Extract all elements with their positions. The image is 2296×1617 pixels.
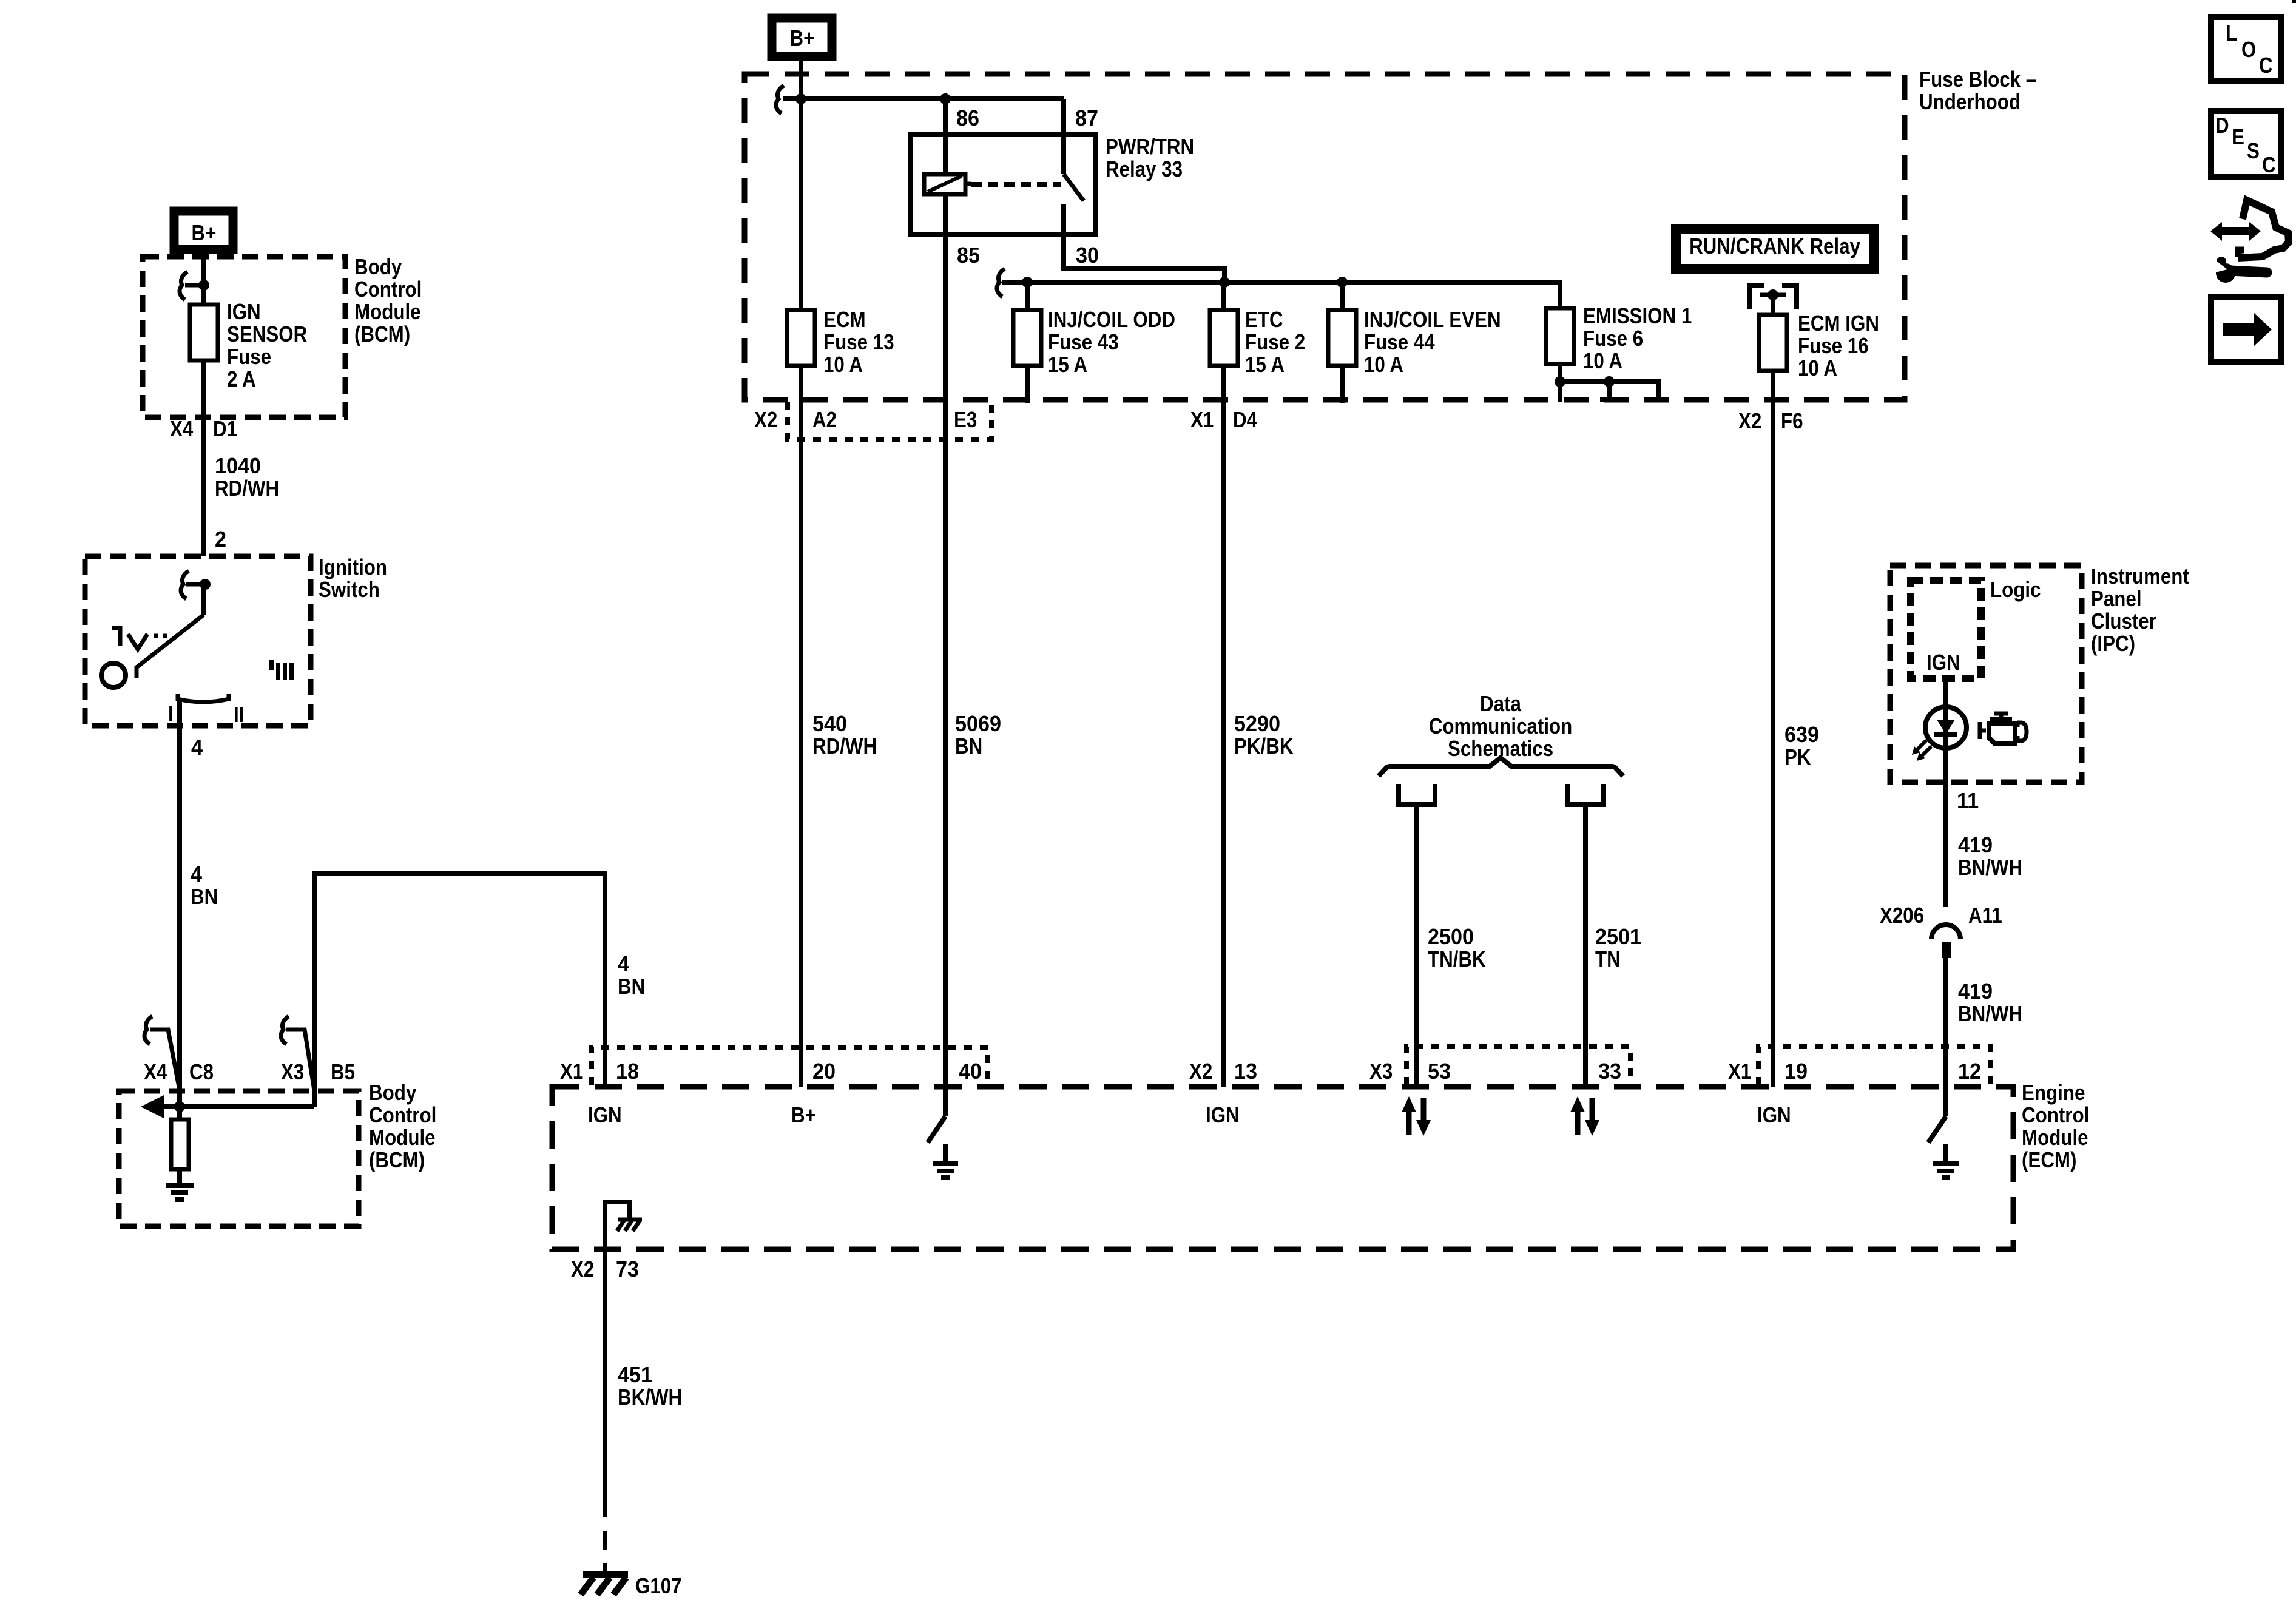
svg-text:Module: Module	[369, 1126, 436, 1150]
fuse EMISSION 1 Fuse 6 10A	[1546, 308, 1574, 364]
svg-text:639: 639	[1784, 723, 1819, 747]
label IGN pin 18	[588, 1103, 622, 1128]
logic dashed box in IPC	[1911, 581, 1981, 678]
svg-text:Module: Module	[2022, 1126, 2088, 1150]
svg-text:EMISSION 1: EMISSION 1	[1583, 304, 1692, 329]
connector hook splice in ignition switch	[181, 571, 205, 599]
label INJ/COIL EVEN Fuse 44 10 A	[1364, 308, 1501, 377]
svg-text:33: 33	[1598, 1059, 1621, 1084]
label X4 C8	[144, 1060, 214, 1085]
fuse INJ/COIL ODD Fuse 43 15A	[1013, 310, 1041, 366]
svg-text:B+: B+	[192, 221, 217, 246]
wire 2501 TN to ECM pin 33	[1583, 805, 1588, 1087]
svg-text:Fuse 2: Fuse 2	[1245, 330, 1305, 355]
page corner mark	[2292, 0, 2296, 3]
svg-text:BK/WH: BK/WH	[618, 1385, 682, 1410]
node junction dot fuse 2	[1219, 277, 1230, 288]
label ECM Fuse 13 10 A	[823, 308, 894, 377]
svg-text:Cluster: Cluster	[2091, 609, 2156, 634]
label Body Control Module (BCM) lower	[369, 1081, 436, 1173]
ignition contact arc I-II	[178, 694, 229, 702]
connector hook splice at top feed	[776, 86, 784, 113]
svg-text:10 A: 10 A	[1798, 356, 1837, 381]
wire label 540 RD/WH	[812, 712, 877, 758]
svg-text:TN: TN	[1595, 947, 1621, 972]
fuse ETC Fuse 2 15A	[1210, 310, 1238, 366]
label Instrument Panel Cluster (IPC)	[2091, 564, 2189, 657]
label X3 53	[1369, 1059, 1451, 1084]
wire relay pin 30 to fuse bus	[1064, 204, 1224, 282]
wire ignition pin 4 to BCM pin C8	[177, 699, 182, 1107]
serial data arrows at pin 33	[1570, 1096, 1599, 1136]
ignition switch blade	[137, 615, 204, 678]
ground G107	[581, 1575, 628, 1595]
fuse INJ/COIL EVEN Fuse 44 10A	[1328, 310, 1356, 366]
connector hook splice in BCM	[180, 272, 204, 300]
label Body Control Module (BCM) upper	[354, 255, 422, 347]
svg-text:X4: X4	[144, 1060, 167, 1085]
node junction dot relay output	[1768, 289, 1778, 300]
svg-text:11: 11	[1957, 789, 1979, 813]
svg-text:C: C	[2259, 53, 2273, 78]
svg-text:85: 85	[957, 243, 980, 268]
label X2 A2	[754, 408, 837, 433]
label INJ/COIL ODD Fuse 43 15 A	[1048, 308, 1175, 377]
pin label 11	[1957, 789, 1979, 813]
svg-text:X3: X3	[281, 1060, 304, 1085]
wire fuse 43 stub	[1025, 282, 1030, 403]
svg-text:II: II	[234, 703, 244, 727]
dashed actuation link	[971, 182, 1061, 187]
label position I	[168, 702, 174, 727]
ignition position III marks	[269, 660, 294, 680]
svg-text:BN/WH: BN/WH	[1958, 856, 2022, 880]
svg-text:15 A: 15 A	[1048, 353, 1087, 377]
svg-text:18: 18	[616, 1059, 639, 1084]
label IGN pin 13	[1206, 1103, 1240, 1128]
svg-text:4: 4	[191, 735, 203, 760]
svg-text:4: 4	[618, 952, 629, 976]
svg-text:L: L	[2226, 21, 2237, 46]
relay switch blade	[1064, 174, 1084, 201]
BCM internal bus with arrow	[141, 1095, 314, 1118]
svg-text:53: 53	[1428, 1059, 1451, 1084]
ignition switch pivot circle	[101, 663, 126, 687]
node junction dot BCM C8	[174, 1101, 185, 1112]
svg-text:Communication: Communication	[1429, 714, 1573, 739]
svg-text:419: 419	[1958, 833, 1993, 857]
wire B+ left to IGN SENSOR fuse and out D1 to ignition switch	[201, 249, 206, 556]
svg-text:Fuse 43: Fuse 43	[1048, 330, 1119, 355]
svg-text:X1: X1	[560, 1059, 583, 1084]
svg-text:Data: Data	[1480, 692, 1521, 717]
svg-text:IGN: IGN	[1206, 1103, 1240, 1128]
label B+ pin 20	[791, 1103, 816, 1128]
svg-text:20: 20	[812, 1059, 836, 1084]
label X2 13	[1189, 1059, 1257, 1084]
svg-text:E3: E3	[954, 408, 977, 433]
node junction dot emission jog mid	[1604, 376, 1615, 387]
connector strip X3 (53 33)	[1406, 1047, 1630, 1085]
node junction dot BCM fuse feed	[198, 280, 209, 291]
IPC dashed box	[1890, 565, 2082, 782]
fuse block - underhood dashed box	[745, 74, 1905, 400]
label ECM IGN Fuse 16 10 A	[1798, 311, 1879, 381]
svg-text:X4: X4	[170, 417, 194, 442]
label Ignition Switch	[319, 555, 387, 603]
wire label 4 BN (right)	[618, 952, 645, 999]
svg-text:Body: Body	[369, 1081, 417, 1106]
fuse ECM IGN Fuse 16 10A	[1759, 315, 1787, 371]
ignition accessory position glyph	[112, 628, 167, 649]
pin label 30	[1076, 243, 1099, 268]
wire emission fuse 6 lower jog	[1560, 364, 1659, 402]
svg-text:Ignition: Ignition	[319, 555, 387, 580]
svg-text:19: 19	[1784, 1059, 1808, 1084]
label Engine Control Module (ECM)	[2022, 1081, 2089, 1173]
label 12	[1958, 1059, 1981, 1084]
wire label 451 BK/WH	[618, 1363, 682, 1409]
node junction dot fuse 43	[1022, 277, 1033, 288]
wire label 5290 PK/BK	[1234, 712, 1294, 758]
svg-text:Engine: Engine	[2022, 1081, 2085, 1106]
svg-text:30: 30	[1076, 243, 1099, 268]
svg-text:BN: BN	[191, 885, 218, 910]
fuse ECM Fuse 13 10A	[787, 310, 815, 366]
node junction dot ignition feed	[200, 579, 211, 590]
brace for data communication	[1379, 758, 1623, 776]
connector X3 B5 symbol	[281, 1016, 314, 1090]
svg-text:2501: 2501	[1595, 925, 1641, 949]
svg-text:X1: X1	[1728, 1059, 1751, 1084]
svg-text:IGN: IGN	[588, 1103, 622, 1128]
svg-text:PK: PK	[1784, 745, 1811, 770]
svg-text:5290: 5290	[1234, 712, 1280, 736]
svg-text:D4: D4	[1233, 408, 1257, 433]
LED indicator in IPC	[1925, 707, 1967, 748]
icon double arrow with wrench	[2210, 200, 2289, 283]
svg-text:451: 451	[618, 1363, 652, 1387]
wire 451 BK/WH to G107	[603, 1249, 607, 1572]
svg-text:Fuse 44: Fuse 44	[1364, 330, 1435, 355]
svg-text:(IPC): (IPC)	[2091, 632, 2135, 657]
label X4 D1	[170, 417, 237, 442]
wire relay pin 87 drop	[1061, 99, 1066, 174]
label E3	[954, 408, 977, 433]
svg-text:Fuse 16: Fuse 16	[1798, 334, 1869, 359]
label 33	[1598, 1059, 1621, 1084]
wire fuse 2 to ECM pin 13 (5290 PK/BK, D4)	[1221, 282, 1226, 1087]
svg-text:BN: BN	[955, 734, 982, 759]
svg-text:Control: Control	[369, 1103, 436, 1128]
svg-text:Fuse 13: Fuse 13	[823, 330, 894, 355]
label Logic	[1990, 578, 2041, 603]
relay coil	[924, 174, 971, 194]
wire ignition feed to blade pivot	[201, 584, 206, 615]
svg-text:Fuse Block –: Fuse Block –	[1919, 67, 2036, 92]
svg-text:E: E	[2232, 125, 2244, 150]
svg-text:2500: 2500	[1428, 925, 1474, 949]
connector strip X2 A2 E3	[788, 402, 991, 439]
label ETC Fuse 2 15 A	[1245, 308, 1305, 377]
svg-text:Fuse 6: Fuse 6	[1583, 326, 1643, 351]
icon DESC box	[2211, 111, 2281, 178]
wire IGN logic to LED and IPC pin 11	[1943, 678, 1948, 784]
fuse IGN SENSOR Fuse 2A	[190, 305, 218, 360]
svg-text:540: 540	[812, 712, 847, 736]
svg-text:X2: X2	[1738, 409, 1761, 434]
label X1 19	[1728, 1059, 1808, 1084]
pin label 2	[215, 527, 226, 552]
svg-text:Logic: Logic	[1990, 578, 2041, 603]
node junction dot emission jog left	[1555, 376, 1565, 387]
label 40	[959, 1059, 982, 1084]
connector strip X1 (19 12)	[1758, 1047, 1991, 1085]
svg-text:10 A: 10 A	[1364, 353, 1403, 377]
pin label 4	[191, 735, 203, 760]
svg-text:BN/WH: BN/WH	[1958, 1002, 2022, 1027]
svg-text:D1: D1	[213, 417, 237, 442]
relay PWR/TRN Relay 33 box	[911, 135, 1095, 235]
wire ECM IGN fuse to ECM pin 19 (639 PK, F6)	[1771, 295, 1775, 1087]
svg-text:IGN: IGN	[1757, 1103, 1791, 1128]
label 20	[812, 1059, 836, 1084]
svg-text:15 A: 15 A	[1245, 353, 1285, 377]
svg-text:Control: Control	[354, 277, 422, 302]
BCM upper dashed box	[143, 257, 345, 417]
svg-text:73: 73	[616, 1257, 639, 1281]
svg-text:PK/BK: PK/BK	[1234, 734, 1294, 759]
BCM lower dashed box	[119, 1091, 359, 1226]
svg-text:A11: A11	[1968, 903, 2002, 928]
wire relay pin 86 / coil / pin 85 / 5069 BN to ECM pin 40 (E3)	[943, 99, 948, 1087]
node junction dot pin 86 branch	[940, 93, 951, 104]
svg-text:Relay 33: Relay 33	[1106, 157, 1183, 182]
ECM internal switch to ground at pin 12	[1928, 1087, 1959, 1178]
ignition switch dashed box	[85, 556, 311, 726]
RUN/CRANK Relay label box	[1676, 229, 1874, 269]
relay socket bracket above ECM IGN fuse	[1749, 286, 1797, 309]
B+ power symbol (left)	[174, 211, 233, 249]
ECM internal chassis ground at pin 73	[605, 1202, 642, 1249]
label IGN SENSOR Fuse 2 A	[227, 300, 307, 392]
B+ power symbol (top)	[772, 18, 832, 56]
svg-text:2: 2	[215, 527, 226, 552]
wire BCM pin B5 output to ECM pin 18 (4 BN)	[314, 874, 605, 1107]
inline connector X206 A11	[1931, 925, 1960, 958]
connector hook splice at fuse bus	[997, 269, 1005, 297]
svg-text:Body: Body	[354, 255, 402, 280]
pin label 86	[956, 106, 979, 130]
svg-text:S: S	[2247, 139, 2260, 164]
ground in BCM	[166, 1186, 194, 1200]
svg-text:(BCM): (BCM)	[369, 1148, 425, 1173]
ECM internal switch to ground at pin 40	[928, 1087, 958, 1178]
svg-text:X2: X2	[1189, 1059, 1212, 1084]
icon forward arrow box	[2211, 297, 2281, 362]
connector terminal for wire 2500	[1399, 784, 1435, 805]
svg-text:(ECM): (ECM)	[2022, 1148, 2076, 1173]
label IGN pin 19	[1757, 1103, 1791, 1128]
label G107	[635, 1574, 682, 1599]
wire B+ top to ECM fuse 13 and ECM pin 20 (540 RD/WH, A2)	[799, 61, 803, 1087]
svg-text:13: 13	[1234, 1059, 1257, 1084]
svg-text:ECM IGN: ECM IGN	[1798, 311, 1879, 336]
svg-text:X1: X1	[1190, 408, 1214, 433]
svg-text:X2: X2	[571, 1257, 594, 1282]
svg-text:Panel: Panel	[2091, 587, 2142, 612]
label Data Communication Schematics	[1429, 692, 1573, 761]
svg-text:RD/WH: RD/WH	[215, 476, 279, 501]
svg-text:INJ/COIL EVEN: INJ/COIL EVEN	[1364, 308, 1501, 333]
node junction dot B+ feed	[795, 93, 806, 104]
svg-text:B+: B+	[790, 26, 815, 51]
svg-text:C: C	[2262, 153, 2276, 178]
svg-text:F6: F6	[1781, 409, 1803, 434]
svg-text:ETC: ETC	[1245, 308, 1283, 333]
svg-text:G107: G107	[635, 1574, 682, 1599]
svg-text:IGN: IGN	[227, 300, 261, 325]
resistor in BCM	[171, 1107, 189, 1186]
svg-text:Instrument: Instrument	[2091, 564, 2189, 589]
label X206 A11	[1880, 903, 2002, 928]
wire fuse bus from relay pin 30	[1002, 282, 1560, 308]
svg-text:PWR/TRN: PWR/TRN	[1106, 135, 1194, 160]
svg-text:BN: BN	[618, 974, 645, 999]
label IGN in logic box	[1926, 650, 1960, 675]
svg-text:Module: Module	[354, 300, 421, 325]
label X2 F6	[1738, 409, 1803, 434]
pin label 87	[1075, 106, 1098, 130]
label PWR/TRN Relay 33	[1106, 135, 1194, 182]
svg-text:B+: B+	[791, 1103, 816, 1128]
svg-text:X2: X2	[754, 408, 777, 433]
svg-text:D: D	[2215, 113, 2229, 138]
svg-text:ECM: ECM	[823, 308, 866, 333]
wire label 2501 TN	[1595, 925, 1641, 971]
svg-text:5069: 5069	[955, 712, 1001, 736]
wire label 1040 RD/WH	[215, 454, 279, 501]
svg-text:87: 87	[1075, 106, 1098, 130]
svg-text:Fuse: Fuse	[227, 345, 271, 370]
svg-text:10 A: 10 A	[1583, 349, 1622, 374]
serial data arrows at pin 53	[1402, 1096, 1431, 1136]
wire top feed horizontal to relay pins 86/87	[783, 96, 1064, 101]
svg-text:IGN: IGN	[1926, 650, 1960, 675]
svg-text:X3: X3	[1369, 1059, 1393, 1084]
label X2 73	[571, 1257, 639, 1282]
wire label 639 PK	[1784, 723, 1819, 769]
label Fuse Block - Underhood	[1919, 67, 2036, 115]
label position II	[234, 703, 244, 727]
wire label 419 BN/WH upper	[1958, 833, 2022, 880]
node junction dot fuse 44	[1337, 277, 1348, 288]
svg-text:(BCM): (BCM)	[354, 322, 410, 347]
svg-text:Control: Control	[2022, 1103, 2089, 1128]
ECM dashed box	[552, 1087, 2013, 1249]
wire inline connector to ECM pin 12	[1943, 958, 1948, 1087]
svg-text:TN/BK: TN/BK	[1428, 947, 1486, 972]
svg-text:1040: 1040	[215, 454, 261, 478]
svg-text:O: O	[2241, 38, 2256, 62]
svg-text:SENSOR: SENSOR	[227, 322, 307, 347]
wire 2500 TN/BK to ECM pin 53	[1414, 805, 1419, 1087]
label X3 B5	[281, 1060, 355, 1085]
svg-text:419: 419	[1958, 979, 1993, 1004]
svg-text:40: 40	[959, 1059, 982, 1084]
connector X4 C8 symbol	[144, 1016, 180, 1090]
svg-text:2 A: 2 A	[227, 367, 256, 392]
connector terminal for wire 2501	[1567, 784, 1604, 805]
svg-text:Switch: Switch	[319, 578, 380, 603]
svg-text:A2: A2	[812, 408, 837, 433]
label X1 18	[560, 1059, 639, 1084]
svg-text:RUN/CRANK Relay: RUN/CRANK Relay	[1689, 234, 1860, 259]
wire label 5069 BN	[955, 712, 1001, 758]
svg-text:86: 86	[956, 106, 979, 130]
connector strip X1 (18 20 40)	[592, 1047, 988, 1085]
svg-text:10 A: 10 A	[823, 353, 863, 377]
svg-text:B5: B5	[331, 1060, 355, 1085]
icon LOC box	[2211, 17, 2281, 81]
svg-text:I: I	[168, 702, 174, 727]
wire label 2500 TN/BK	[1428, 925, 1486, 971]
svg-text:4: 4	[191, 862, 202, 886]
LED light arrows	[1912, 740, 1931, 761]
wire fuse 44 stub	[1340, 282, 1345, 403]
svg-text:RD/WH: RD/WH	[812, 734, 877, 759]
svg-text:C8: C8	[189, 1060, 214, 1085]
wire label 419 BN/WH lower	[1958, 979, 2022, 1026]
svg-text:X206: X206	[1880, 903, 1924, 928]
svg-text:Underhood: Underhood	[1919, 90, 2021, 115]
svg-text:12: 12	[1958, 1059, 1981, 1084]
wire label 4 BN (left)	[191, 862, 218, 909]
label EMISSION 1 Fuse 6 10 A	[1583, 304, 1692, 374]
pin label 85	[957, 243, 980, 268]
label X1 D4	[1190, 408, 1257, 433]
engine icon in IPC	[1980, 714, 2027, 744]
svg-text:INJ/COIL ODD: INJ/COIL ODD	[1048, 308, 1175, 333]
wire IPC pin 11 to inline connector	[1943, 784, 1948, 907]
